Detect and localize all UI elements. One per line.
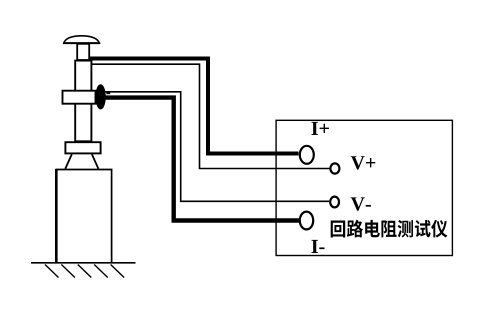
bushing stud (77, 44, 89, 60)
terminal V+ (330, 163, 339, 173)
support cone right edge (92, 154, 99, 169)
ground hatch 3 (78, 265, 92, 278)
test clamp jaw dash (106, 92, 110, 95)
bushing column (75, 61, 91, 142)
wire I+ (thick, from bushing stud to I+ terminal) (89, 59, 299, 154)
ground line (31, 262, 136, 264)
label V+ (351, 156, 376, 169)
lower flange (65, 142, 100, 153)
terminal V- (330, 197, 339, 208)
test clamp ellipse (95, 84, 105, 109)
label V- (351, 197, 371, 210)
terminal I- (300, 212, 313, 230)
breaker body (56, 170, 111, 263)
breaker body left edge (thick) (55, 169, 58, 263)
tester box (276, 120, 452, 255)
cap base line (63, 42, 100, 44)
ground hatch 1 (45, 265, 59, 278)
ground hatch 2 (61, 265, 75, 278)
label 回路电阻测试仪 (loop resistance tester) (331, 220, 448, 238)
ground hatch 4 (94, 265, 108, 278)
terminal I+ (300, 146, 314, 164)
bushing cap (64, 36, 100, 43)
wire V- (thin, from test clamp to V- terminal) (103, 92, 329, 202)
support cone left edge (65, 154, 72, 169)
label I- (311, 240, 324, 253)
wire V+ (thin, from bushing column to V+ terminal) (91, 64, 330, 168)
upper flange (63, 91, 96, 104)
label I+ (311, 122, 328, 135)
ground hatch 5 (111, 265, 125, 278)
wire I- (thick, from test clamp to I- terminal) (103, 98, 299, 221)
